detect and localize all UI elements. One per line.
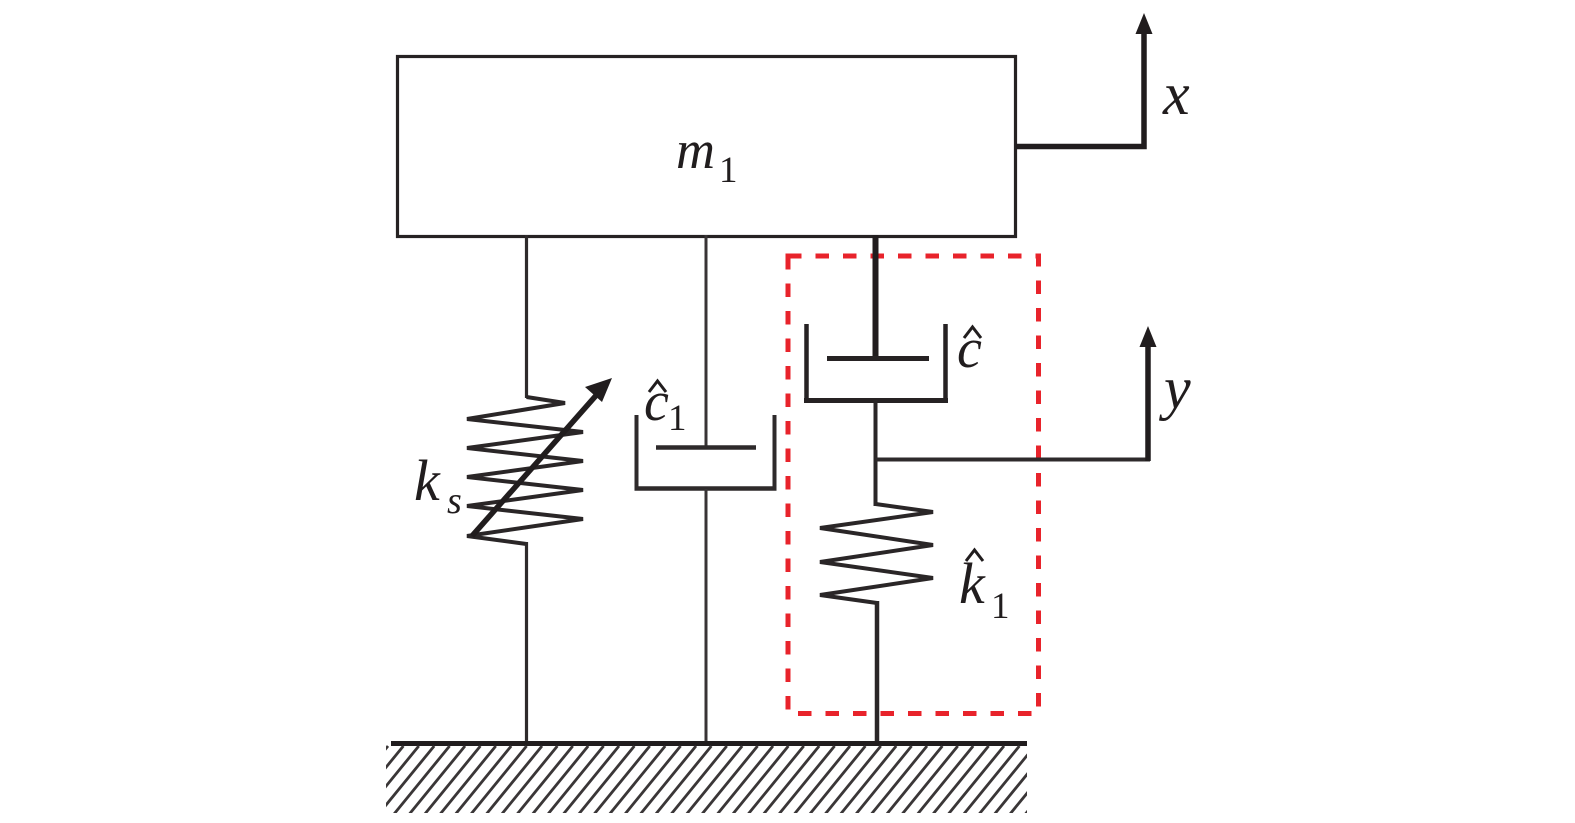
svg-text:y: y bbox=[1158, 355, 1191, 421]
label c1_hat bbox=[644, 371, 687, 439]
node wire to y axis bbox=[876, 458, 1151, 462]
damper c1_hat bbox=[635, 415, 777, 489]
y axis bbox=[1140, 326, 1192, 461]
ground line bbox=[391, 741, 1027, 746]
wire: damper c1 to ground bbox=[705, 489, 708, 745]
svg-text:1: 1 bbox=[668, 398, 687, 439]
label c_hat bbox=[957, 318, 982, 380]
svg-text:1: 1 bbox=[719, 150, 738, 191]
svg-text:k: k bbox=[414, 448, 441, 513]
wire: mass bottom to spring ks bbox=[525, 235, 528, 398]
spring k1_hat bbox=[820, 504, 933, 603]
svg-text:s: s bbox=[447, 480, 462, 522]
svg-text:x: x bbox=[1162, 61, 1190, 127]
svg-text:c: c bbox=[957, 318, 982, 380]
wire: spring k1 to ground bbox=[875, 601, 880, 745]
wire: mass bottom to damper c piston rod (bold) bbox=[873, 235, 879, 360]
svg-text:m: m bbox=[676, 120, 715, 180]
damper c_hat bbox=[804, 324, 948, 401]
label ks bbox=[414, 448, 462, 522]
label k1_hat bbox=[959, 550, 1010, 627]
wire: spring ks to ground bbox=[525, 542, 528, 745]
spring ks bbox=[467, 397, 583, 544]
ground hatching bbox=[330, 746, 1081, 817]
variable-spring arrow bbox=[472, 378, 612, 536]
wire: damper c to node bbox=[874, 400, 878, 506]
x axis bbox=[1016, 13, 1190, 147]
wire: mass bottom to damper c1 piston rod bbox=[705, 235, 708, 449]
mass m1 bbox=[398, 57, 1016, 237]
svg-text:1: 1 bbox=[991, 586, 1010, 627]
red dashed box bbox=[788, 256, 1039, 714]
